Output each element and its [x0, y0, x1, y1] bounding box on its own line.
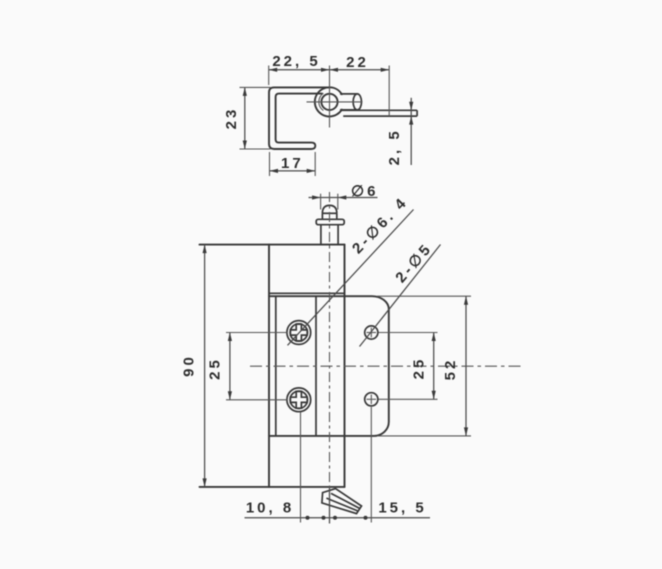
leaf inner fold line — [275, 296, 277, 436]
leaf flange edge line — [315, 296, 317, 436]
leaf left edge — [268, 245, 270, 487]
svg-text:22: 22 — [346, 54, 369, 71]
knuckle inner arc — [319, 93, 324, 110]
dimension 25 left — [229, 333, 231, 400]
dimension 25 right — [433, 333, 435, 400]
knuckle crosshair centerlines — [329, 66, 331, 128]
leaf right edge — [344, 245, 346, 487]
svg-text:17: 17 — [281, 155, 304, 172]
hinge C-profile outline — [269, 87, 330, 149]
centerline vertical (pin axis) — [329, 192, 331, 507]
dimension 23 — [244, 87, 246, 149]
dimension 22.5 — [269, 69, 390, 71]
leader 2-phi6.4 — [288, 210, 414, 346]
dimension 17 — [270, 170, 316, 172]
screw bottom — [287, 388, 311, 412]
svg-text:2, 5: 2, 5 — [386, 128, 403, 165]
dimension 52 — [465, 296, 467, 436]
leader 2-phi5 — [360, 245, 441, 347]
leaf bottom edge — [200, 486, 345, 488]
pin dome base — [322, 212, 336, 214]
svg-text:52: 52 — [442, 358, 459, 381]
dimension 22 — [330, 68, 339, 72]
pin cylinder to the right — [340, 93, 357, 95]
svg-text:23: 23 — [223, 107, 240, 130]
svg-text:2-∅5: 2-∅5 — [392, 240, 436, 286]
pin neck — [320, 225, 322, 245]
pin flange — [316, 219, 344, 224]
svg-text:2-∅6. 4: 2-∅6. 4 — [349, 193, 412, 257]
svg-text:22, 5: 22, 5 — [272, 53, 320, 70]
svg-text:10, 8: 10, 8 — [246, 500, 294, 517]
pin head cylinder sides — [321, 213, 323, 219]
svg-text:15, 5: 15, 5 — [378, 500, 426, 517]
screw top (2-phi6.4) — [287, 321, 311, 345]
plate outline with rounded right corners — [269, 296, 389, 436]
dimension 90 — [204, 245, 206, 487]
dimension 2.5 — [410, 98, 412, 165]
svg-text:25: 25 — [207, 357, 224, 380]
centerline horizontal — [250, 365, 524, 367]
leaf outline: top block — [200, 244, 345, 246]
strap (moving leaf, 2.5 thick) — [342, 109, 418, 111]
small hole bottom — [365, 393, 378, 406]
52 extension lines — [377, 295, 471, 297]
svg-text:90: 90 — [181, 354, 198, 377]
small hole top (2-phi5) — [365, 326, 378, 339]
bottom dimension line (10.8 / 15.5) — [245, 517, 431, 519]
dimension phi6 — [309, 197, 378, 199]
pin top: dome head — [322, 205, 336, 213]
knuckle outer barrel arc — [330, 87, 342, 94]
svg-text:25: 25 — [410, 357, 427, 380]
hinge pin circle — [321, 94, 337, 110]
bent pin stub at bottom — [322, 489, 362, 514]
svg-text:∅6: ∅6 — [351, 183, 378, 200]
